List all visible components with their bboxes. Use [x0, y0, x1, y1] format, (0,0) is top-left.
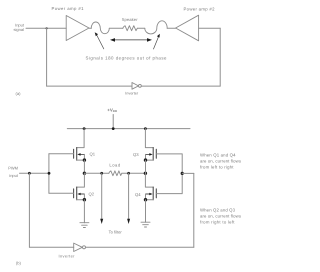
wire amp2 input — [199, 27, 221, 29]
svg-text:signal: signal — [14, 27, 25, 32]
filter arrow 1 — [101, 173, 103, 219]
wire PWM input — [20, 172, 50, 174]
svg-text:are on, current flows: are on, current flows — [200, 214, 241, 219]
wire bottom feedback right — [141, 85, 220, 87]
svg-text:Q3: Q3 — [133, 152, 139, 157]
wire right drop — [193, 173, 195, 247]
wire load left segment — [84, 172, 108, 174]
wire Q4 source to ground — [145, 200, 147, 223]
wire bottom left to inverter — [29, 246, 73, 248]
wire bottom feedback left — [47, 85, 132, 87]
svg-text:Load: Load — [109, 163, 120, 168]
inverter (b) — [74, 243, 83, 251]
transistor Q2 — [74, 187, 77, 200]
callout arrow right (to amp2 output) — [154, 37, 159, 49]
wire right feedback drop — [219, 28, 221, 86]
svg-text:are on, current flows: are on, current flows — [200, 158, 241, 163]
svg-text:Speaker: Speaker — [122, 17, 139, 22]
wire Q2 drain — [77, 173, 85, 187]
wire VDD rail — [67, 128, 190, 130]
wire Q3 gate — [156, 153, 182, 155]
node Q4 source tie — [144, 198, 147, 201]
node input tap — [46, 27, 48, 29]
node Q1 source tie — [83, 158, 86, 161]
op-amp power amp #2 (points left) — [176, 15, 199, 41]
filter arrow 2 — [128, 173, 130, 219]
svg-text:Signals 180 degrees out of pha: Signals 180 degrees out of phase — [86, 56, 168, 61]
wire VDD stub — [112, 115, 114, 129]
callout arrow left (to amp1 output) — [97, 35, 104, 49]
svg-text:To filter: To filter — [109, 230, 123, 235]
wire speaker to right sine — [137, 27, 145, 29]
wire left feedback drop — [46, 28, 48, 86]
double-headed arrow (phase span) — [114, 39, 149, 41]
svg-text:(b): (b) — [16, 261, 22, 266]
wire left drop to inverter — [28, 173, 30, 247]
wire Q4 drain — [145, 173, 153, 187]
svg-text:Power amp #2: Power amp #2 — [184, 7, 216, 12]
wire Q4 gate — [156, 193, 182, 195]
wire amp1 output — [89, 27, 91, 29]
node rail-Q1 — [83, 127, 86, 130]
node rail-VDD — [112, 127, 115, 130]
wire Q2 gate — [49, 192, 74, 194]
op-amp power amp #1 — [66, 16, 89, 41]
wire left gate bus — [48, 154, 50, 194]
wire Q1 source to load — [83, 160, 85, 173]
svg-text:(a): (a) — [15, 91, 21, 96]
node right bus tap — [181, 172, 184, 175]
transistor Q3 (mirrored) — [153, 148, 156, 161]
node Q2 source tie — [83, 198, 86, 201]
node rail-Q3 — [144, 127, 147, 130]
wire input signal to amp1 — [26, 27, 66, 29]
node PWM tap — [28, 172, 31, 175]
ground (below Q4) — [141, 222, 150, 227]
node filter tap 2 — [127, 172, 130, 175]
resistor speaker — [123, 26, 138, 31]
wire right gate bus — [181, 154, 183, 194]
node Q3 source tie — [144, 158, 147, 161]
label When Q1 and Q4 — [200, 152, 241, 169]
svg-text:When Q2 and Q3: When Q2 and Q3 — [200, 208, 236, 213]
wire Q1 gate — [49, 153, 74, 155]
svg-text:PWM: PWM — [8, 166, 18, 171]
wire sine to amp2 — [167, 27, 175, 29]
svg-text:Power amp #1: Power amp #1 — [52, 6, 85, 11]
left sine wave (hump then dip) — [91, 22, 109, 34]
node load right — [144, 172, 147, 175]
svg-text:Q4: Q4 — [135, 192, 141, 197]
resistor Load — [109, 171, 122, 176]
wire Q3 source to load — [145, 160, 147, 173]
node load left — [83, 172, 86, 175]
right sine wave (dip then hump) — [145, 21, 167, 34]
svg-text:Inverter: Inverter — [125, 92, 139, 96]
svg-text:Inverter: Inverter — [59, 253, 76, 258]
svg-text:from right to left: from right to left — [200, 220, 235, 225]
wire inverter to right drop — [86, 246, 194, 248]
svg-text:input: input — [9, 173, 19, 178]
wire load right segment — [122, 172, 146, 174]
ground (below Q2) — [80, 223, 89, 228]
wire Q2 source to ground — [83, 200, 85, 223]
wire Q1 drain — [77, 129, 84, 148]
inverter (a) — [132, 83, 139, 90]
wire sine to speaker — [109, 27, 123, 29]
svg-text:Q2: Q2 — [89, 192, 95, 197]
svg-text:from left to right: from left to right — [200, 164, 234, 169]
node filter tap 1 — [100, 172, 103, 175]
label When Q2 and Q3 — [200, 208, 241, 225]
svg-text:Q1: Q1 — [90, 151, 96, 156]
node gate bus tap — [48, 172, 51, 175]
wire bus tap to right drop — [182, 172, 194, 174]
transistor Q1 — [74, 148, 77, 161]
svg-text:+VDD: +VDD — [107, 107, 118, 113]
wire Q3 drain — [145, 129, 153, 148]
transistor Q4 (mirrored) — [153, 187, 156, 200]
svg-text:When Q1 and Q4: When Q1 and Q4 — [200, 152, 236, 157]
